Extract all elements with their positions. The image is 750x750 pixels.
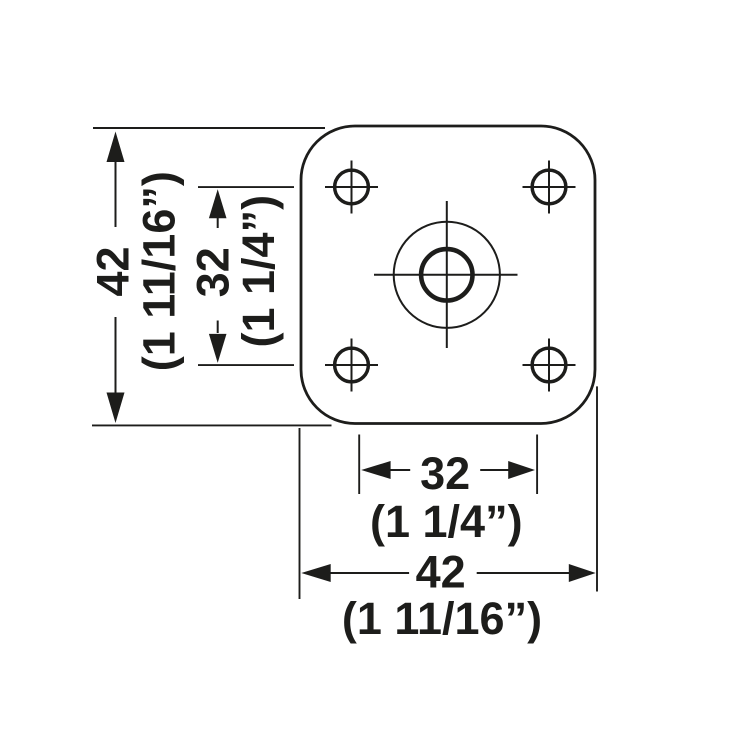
inner 32 dim: bottom arrow (209, 334, 227, 363)
left 42 dim: bottom arrow (107, 393, 125, 424)
inner 32 dim: upper line segment (217, 218, 219, 229)
bottom 32 dim: left extension line (358, 435, 360, 495)
screw hole top-left (325, 161, 378, 214)
inner 32 dim: top arrow (209, 189, 227, 218)
central spigot inner circle (421, 249, 472, 300)
left 42 dim: bottom extension line (92, 424, 332, 426)
mounting plate outline (301, 126, 595, 424)
bottom 32 dim: right arrow (508, 461, 535, 479)
bottom 32 dim: left arrow (361, 461, 390, 479)
svg-text:(1 11/16”): (1 11/16”) (342, 593, 542, 644)
svg-text:32: 32 (188, 247, 239, 297)
inner 32 dim: bottom extension line (198, 364, 294, 366)
svg-text:42: 42 (416, 546, 466, 597)
central crosshair horizontal (374, 274, 518, 276)
left 42 dim: upper line segment (115, 160, 117, 227)
central spigot outer circle (394, 222, 500, 328)
inner 32 dim: top extension line (198, 186, 294, 188)
left 42 dim: lower line segment (115, 317, 117, 393)
left 42 dim: top arrow (107, 132, 125, 163)
bottom 42 dim: left line segment (330, 572, 410, 574)
bottom 32 dim: right extension line (536, 435, 538, 495)
bottom 42 dim: right line segment (477, 572, 570, 574)
left 42 dim: top extension line (93, 127, 325, 129)
screw hole top-right (523, 161, 576, 214)
bottom 42 dim: left arrow (301, 564, 330, 582)
svg-text:(1 1/4”): (1 1/4”) (233, 195, 284, 348)
screw hole bottom-right (523, 339, 576, 392)
svg-text:(1 1/4”): (1 1/4”) (370, 496, 523, 547)
bottom 42 dim: right arrow (569, 564, 596, 582)
bottom 32 dim: right line segment (480, 469, 509, 471)
central crosshair vertical (446, 201, 448, 348)
screw hole bottom-left (325, 339, 378, 392)
bottom 32 dim: left line segment (390, 469, 411, 471)
bottom 42 dim: left extension line (299, 428, 301, 599)
svg-text:42: 42 (88, 246, 139, 296)
bottom 42 dim: right extension line (596, 386, 598, 591)
svg-text:(1 11/16”): (1 11/16”) (133, 171, 184, 371)
inner 32 dim: lower line segment (217, 321, 219, 334)
svg-text:32: 32 (420, 448, 470, 499)
